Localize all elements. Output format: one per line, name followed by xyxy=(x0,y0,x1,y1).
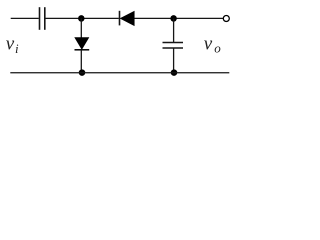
capacitor C2 (shunt output capacitor) xyxy=(163,43,184,49)
diode D1 (shunt diode, pointing down) xyxy=(75,38,90,50)
diode D2 (series diode, pointing left) xyxy=(120,11,134,26)
svg-text:i: i xyxy=(15,41,19,56)
wire: D2 anode to output terminal xyxy=(135,17,224,19)
wire: D1 cathode to bottom rail xyxy=(80,50,82,73)
svg-text:v: v xyxy=(204,33,213,54)
wire: input top lead xyxy=(11,17,39,19)
wire: C2 bottom plate to bottom rail xyxy=(173,48,175,72)
svg-text:v: v xyxy=(6,33,15,54)
svg-text:o: o xyxy=(214,41,221,56)
node A junction dot xyxy=(78,15,85,22)
node D junction dot (bottom rail below C2) xyxy=(171,69,178,76)
node C junction dot (bottom rail below D1) xyxy=(79,69,86,76)
wire: bottom rail xyxy=(10,72,229,74)
node B junction dot xyxy=(170,15,177,22)
capacitor C1 (series coupling capacitor) xyxy=(40,7,45,30)
wire: node B down to C2 top plate xyxy=(173,18,175,42)
wire: node A down to D1 anode xyxy=(80,18,82,37)
output terminal v_o (open circle) xyxy=(223,16,229,22)
wire: C1 to diode D2 cathode bar xyxy=(46,17,119,19)
